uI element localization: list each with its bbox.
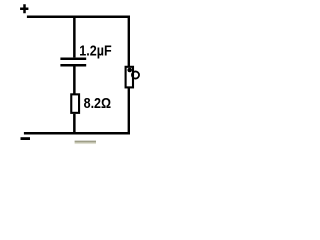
selection artifact bar: [75, 141, 96, 144]
wire right vertical lower: [128, 88, 130, 134]
svg-text:1.2µF: 1.2µF: [79, 43, 112, 59]
capacitor C1: [60, 59, 86, 66]
plus terminal: [20, 4, 28, 13]
svg-text:8.2Ω: 8.2Ω: [84, 96, 112, 112]
earphone P1 dot: [127, 68, 132, 73]
wire capacitor to resistor: [73, 66, 76, 94]
wire resistor to bottom: [73, 114, 76, 133]
earphone P1 loop: [132, 71, 139, 78]
resistor R1: [71, 94, 79, 113]
wire right vertical upper: [128, 16, 130, 67]
wire bottom horizontal: [24, 132, 130, 134]
wire capacitor branch upper: [73, 16, 76, 58]
wire top horizontal: [27, 16, 130, 18]
minus terminal: [21, 137, 31, 140]
earphone P1 body: [126, 67, 133, 88]
